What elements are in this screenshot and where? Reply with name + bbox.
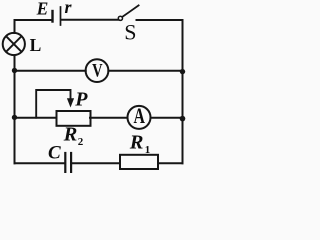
svg-text:A: A xyxy=(133,105,145,129)
battery E long plate xyxy=(60,7,62,25)
wire R1 to bottom-right corner xyxy=(158,162,183,164)
svg-text:L: L xyxy=(30,35,42,55)
wire ammeter to right side xyxy=(151,117,183,119)
svg-text:r: r xyxy=(65,0,73,17)
wire bottom-left corner to capacitor xyxy=(15,162,65,164)
wire top-left segment xyxy=(15,20,53,33)
capacitor C left plate xyxy=(64,153,66,172)
wire battery to switch xyxy=(62,19,119,21)
svg-text:P: P xyxy=(74,89,88,111)
ammeter A circle xyxy=(128,106,151,129)
junction node right ammeter xyxy=(180,116,186,122)
junction node left rheostat xyxy=(12,115,17,120)
wire left side below lamp xyxy=(14,55,16,163)
resistor R1 box xyxy=(120,155,158,169)
wire voltmeter branch right xyxy=(108,70,182,72)
svg-text:V: V xyxy=(92,60,102,81)
wire switch to top-right corner xyxy=(137,20,183,60)
wire rheostat to ammeter xyxy=(90,117,128,119)
svg-text:R: R xyxy=(63,123,78,145)
wire capacitor to R1 box xyxy=(72,162,120,164)
lamp L circle xyxy=(3,33,25,55)
junction node right voltmeter xyxy=(180,69,185,74)
junction node left voltmeter xyxy=(12,68,17,73)
rheostat slider arrowhead P xyxy=(67,98,74,107)
rheostat slider wire xyxy=(36,90,70,118)
capacitor C right plate xyxy=(70,153,72,172)
svg-text:S: S xyxy=(124,19,136,44)
rheostat R2 box xyxy=(57,111,91,126)
switch S pivot xyxy=(118,16,122,20)
switch S lever xyxy=(122,5,138,17)
battery E short plate xyxy=(51,11,53,22)
svg-text:C: C xyxy=(48,143,61,164)
lamp L cross xyxy=(6,36,21,52)
wire right side middle xyxy=(182,60,184,163)
svg-text:1: 1 xyxy=(145,144,151,156)
wire voltmeter branch left xyxy=(15,70,86,72)
svg-text:2: 2 xyxy=(78,136,84,148)
wire rheostat branch left xyxy=(15,117,57,119)
svg-text:E: E xyxy=(36,0,49,19)
svg-text:R: R xyxy=(129,131,144,153)
voltmeter V circle xyxy=(86,59,109,82)
